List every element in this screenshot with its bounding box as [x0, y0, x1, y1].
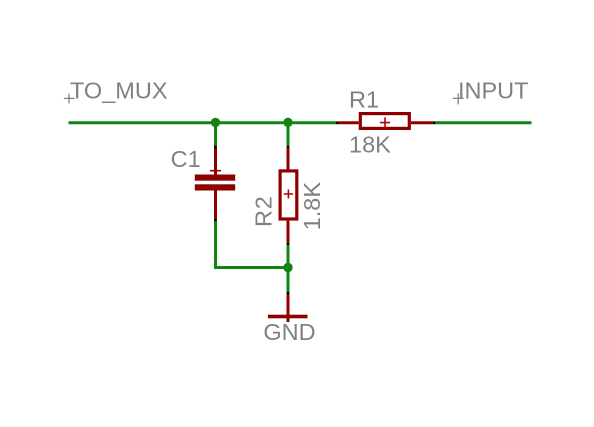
pin: C1 pin 1 (top) — [214, 149, 217, 176]
pin: GND supply pin — [287, 294, 290, 322]
pin: R2 pin 1 (top) — [287, 148, 290, 170]
svg-text:GND: GND — [263, 319, 315, 345]
svg-text:INPUT: INPUT — [458, 77, 529, 103]
svg-text:18K: 18K — [349, 132, 391, 158]
net label TO_MUX origin cross — [64, 94, 75, 104]
junction: wire-pin joint above C1 — [214, 146, 217, 149]
resistor R1 origin cross — [380, 117, 390, 127]
capacitor C1 origin cross — [210, 165, 221, 176]
wire: vertical drop from node B to R2 — [287, 123, 290, 146]
resistor R1 body — [360, 114, 409, 129]
svg-text:TO_MUX: TO_MUX — [70, 78, 168, 104]
node A junction dot — [211, 118, 220, 127]
wire: C1 bottom to bottom net — [214, 221, 217, 268]
junction: wire-pin joint right of R1 — [433, 121, 435, 124]
bottom node junction dot — [283, 263, 292, 272]
pin: R2 pin 2 (bottom) — [287, 221, 290, 243]
pin: R1 pin 2 (right) — [411, 121, 433, 124]
junction: wire-pin joint left of R1 — [336, 121, 338, 124]
node B junction dot — [283, 118, 292, 127]
pin: R1 pin 1 (left) — [338, 121, 359, 124]
svg-text:1.8K: 1.8K — [299, 182, 325, 231]
wire: main horizontal net INPUT, right segment — [435, 121, 532, 124]
wire: R2 bottom to bottom node — [287, 245, 290, 268]
svg-text:R2: R2 — [250, 195, 276, 227]
junction: wire-pin joint below R2 — [287, 243, 290, 245]
wire: vertical drop from node A to C1 — [214, 123, 217, 146]
junction: wire-pin joint below C1 — [214, 219, 217, 222]
resistor R2 origin cross — [284, 190, 293, 199]
svg-text:C1: C1 — [171, 146, 201, 172]
net label INPUT origin cross — [453, 93, 464, 104]
junction: wire-pin joint above GND — [287, 292, 290, 294]
wire: main horizontal net TO_MUX, left segment — [69, 121, 336, 124]
junction: wire-pin joint above R2 — [287, 146, 290, 148]
svg-text:R1: R1 — [349, 87, 379, 113]
ground symbol GND bar — [268, 315, 308, 319]
capacitor C1 top plate — [195, 175, 235, 181]
wire: bottom horizontal net — [214, 266, 288, 269]
capacitor C1 bottom plate — [195, 184, 235, 190]
wire: bottom node down to GND pin — [287, 268, 290, 293]
pin: C1 pin 2 (bottom) — [214, 190, 217, 219]
resistor R2 body — [280, 171, 297, 219]
